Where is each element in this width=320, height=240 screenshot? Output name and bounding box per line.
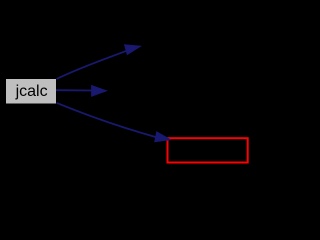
wire: edge from jcalc to upper-right node — [57, 51, 127, 79]
wire: edge from jcalc to lower-right red node — [57, 103, 157, 137]
wire: edge from jcalc to middle node — [56, 89, 92, 91]
node: truncated node (red outline, label invisible on black) — [168, 138, 248, 162]
node jcalc (current node, grey fill) — [6, 79, 56, 104]
svg-text:jcalc: jcalc — [15, 83, 48, 100]
arrowhead: edge to middle node — [92, 86, 107, 97]
label jcalc — [15, 83, 48, 100]
arrowhead: edge to upper-right node — [125, 45, 141, 55]
arrowhead: edge to red node — [155, 132, 171, 142]
